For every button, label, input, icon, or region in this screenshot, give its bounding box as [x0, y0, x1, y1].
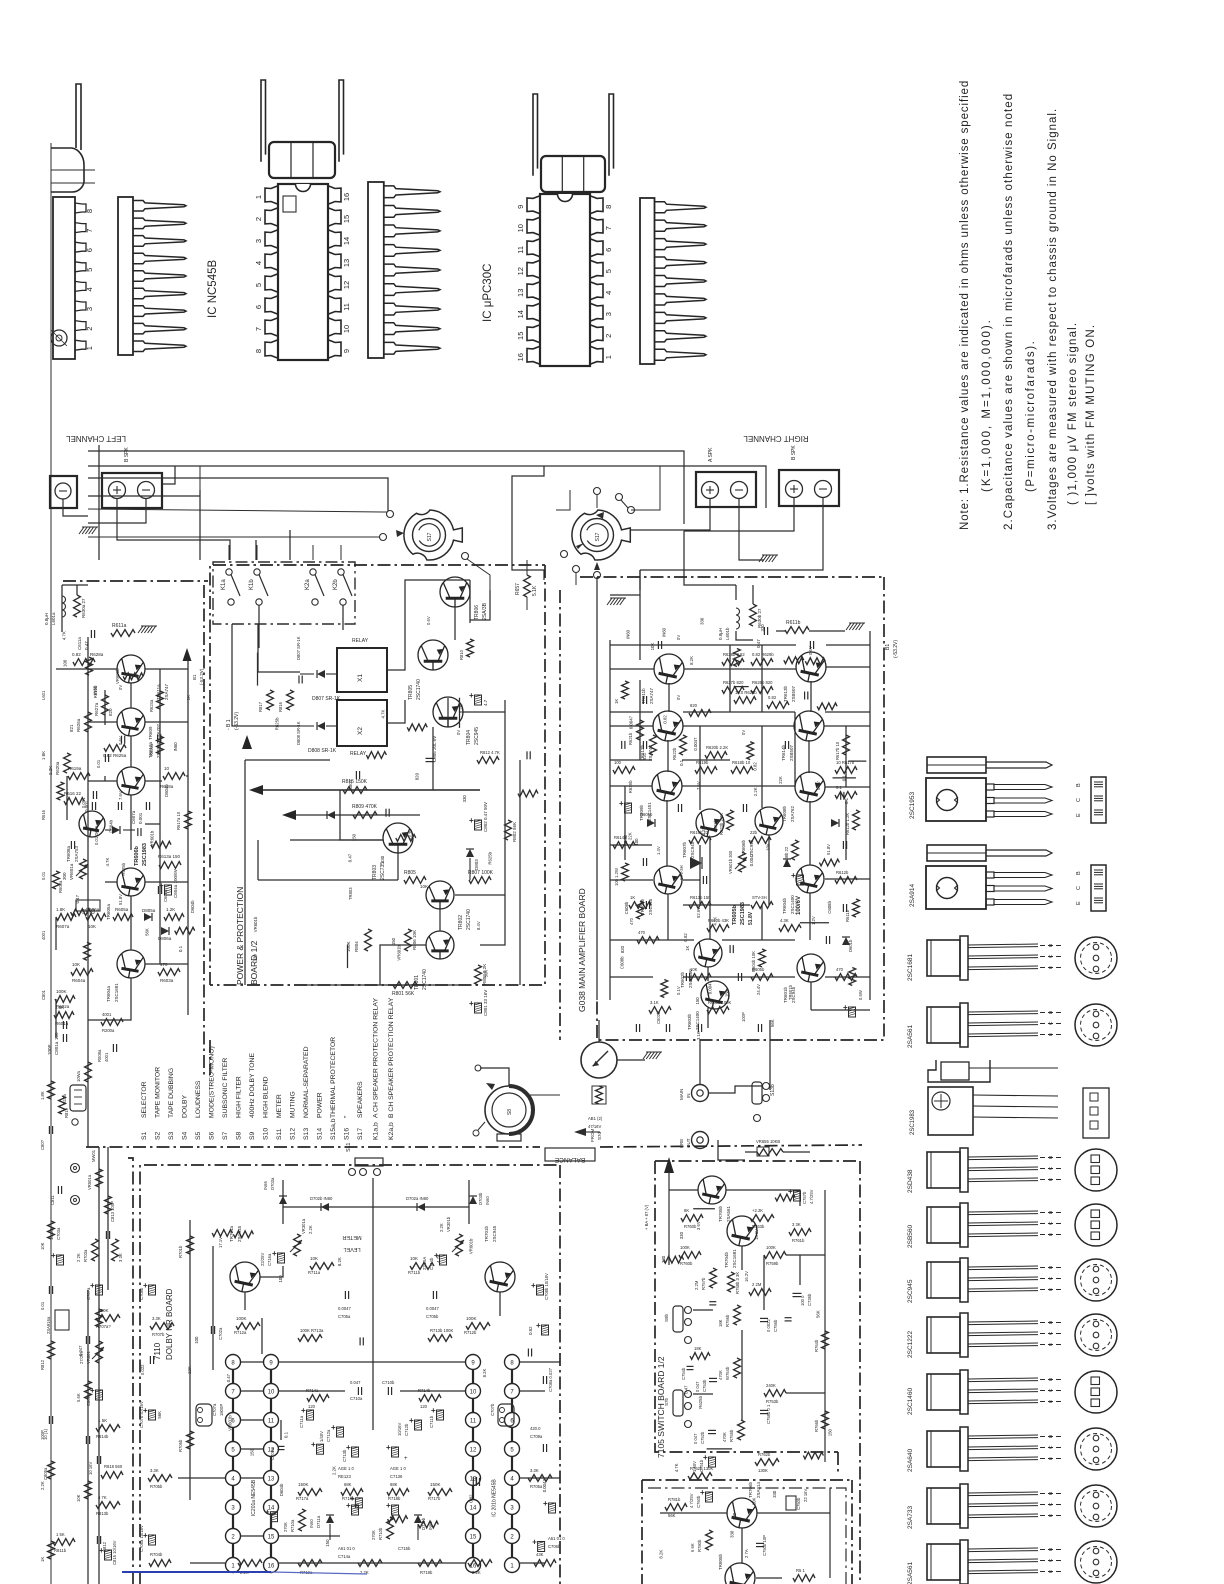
svg-text:C801: C801	[41, 989, 46, 1000]
switch S7b	[664, 1390, 692, 1428]
svg-text:15: 15	[268, 1535, 275, 1541]
svg-text:2 2M: 2 2M	[752, 1282, 762, 1287]
svg-text:100: 100	[634, 838, 639, 846]
label C719 b	[398, 1546, 411, 1551]
svg-text:3.1K: 3.1K	[650, 1000, 659, 1005]
svg-text:+: +	[386, 1501, 391, 1510]
svg-text:2SA733: 2SA733	[907, 1505, 914, 1529]
svg-text:150K: 150K	[430, 1482, 441, 1487]
power board dashed outline	[210, 565, 545, 985]
svg-text:3.Voltages are measured with r: 3.Voltages are measured with respect to …	[1047, 108, 1059, 530]
svg-text:56K: 56K	[770, 1019, 775, 1027]
label BALANCE	[545, 1148, 595, 1163]
svg-text:11: 11	[342, 303, 351, 311]
svg-text:2SA747: 2SA747	[164, 683, 169, 700]
svg-text:56K: 56K	[144, 928, 149, 936]
svg-text:56K: 56K	[484, 970, 489, 978]
resistor R714a 120	[306, 1388, 329, 1409]
svg-text:2SC945: 2SC945	[648, 898, 653, 915]
svg-text:D703b: D703b	[478, 1192, 483, 1205]
svg-text:2SC945: 2SC945	[907, 1279, 914, 1303]
svg-text:51.8V: 51.8V	[748, 911, 754, 925]
svg-text:MODE(STREO-MONO): MODE(STREO-MONO)	[209, 1046, 216, 1118]
svg-text:( )1,000 μV FM stereo signal: ( )1,000 μV FM stereo signal.	[1067, 322, 1079, 505]
svg-text:TR804: TR804	[466, 730, 472, 745]
svg-text:R612b: R612b	[836, 870, 849, 875]
svg-text:1K: 1K	[40, 1557, 45, 1562]
svg-text:C710b: C710b	[382, 1380, 395, 1385]
svg-text:C813 100P: C813 100P	[110, 1201, 115, 1222]
resistor R802 8.2K	[475, 964, 487, 985]
svg-text:2SC1740: 2SC1740	[416, 679, 422, 700]
svg-text:10K: 10K	[76, 1494, 81, 1502]
svg-text:0.82: 0.82	[768, 695, 777, 700]
svg-text:TR601b: TR601b	[788, 984, 793, 1000]
resistor R626a	[69, 712, 91, 732]
dolby right components	[528, 1273, 565, 1566]
svg-text:STV-3H: STV-3H	[679, 865, 684, 880]
svg-text:R719b: R719b	[420, 1570, 433, 1575]
package 2SA561b	[907, 1540, 1117, 1584]
svg-text:0.0047: 0.0047	[338, 1306, 351, 1311]
svg-text:0.6V: 0.6V	[816, 781, 821, 790]
svg-text:15 6V: 15 6V	[754, 1229, 759, 1240]
transistor TR611a 2SA747	[117, 655, 169, 700]
svg-text:IC μPC30C: IC μPC30C	[482, 264, 494, 322]
svg-text:VR655 10KB: VR655 10KB	[756, 1139, 780, 1144]
svg-text:R815 150K: R815 150K	[342, 779, 368, 785]
svg-text:TR805: TR805	[408, 685, 414, 700]
svg-text:0V: 0V	[676, 635, 681, 640]
left amp extra parts	[53, 685, 192, 905]
label 16.2V	[744, 1271, 749, 1282]
svg-text:R625b: R625b	[698, 1395, 703, 1408]
svg-text:22b: 22b	[750, 830, 758, 835]
resistor R763b 2.2K	[750, 1208, 774, 1229]
transistor TR601b 2SC945	[783, 954, 825, 1003]
svg-text:0.82: 0.82	[683, 933, 688, 942]
transistor TR805 2SC1740	[408, 640, 448, 700]
svg-text:D803: D803	[474, 859, 479, 870]
svg-text:R625b: R625b	[275, 717, 280, 730]
wire S17b feeds	[512, 451, 570, 580]
wire right bus to S17b	[631, 466, 660, 510]
switch S9b	[664, 1306, 692, 1344]
svg-text:0.01: 0.01	[40, 1301, 45, 1310]
svg-text:7110: 7110	[153, 1342, 162, 1360]
svg-text:0.0047: 0.0047	[426, 1306, 439, 1311]
svg-text:9: 9	[342, 349, 351, 353]
cap C805 pp	[426, 736, 438, 762]
svg-text:+: +	[51, 1251, 56, 1260]
svg-text:S14: S14	[317, 1128, 324, 1140]
svg-text:470K: 470K	[718, 1370, 723, 1380]
svg-text:POWER: POWER	[317, 1092, 324, 1118]
label LEFT CHANNEL	[66, 434, 126, 443]
svg-text:8.4V: 8.4V	[476, 921, 481, 930]
svg-text:R714b: R714b	[418, 1388, 431, 1393]
svg-text:150: 150	[391, 937, 396, 945]
svg-text:C709a: C709a	[270, 1447, 275, 1460]
svg-text:4.7: 4.7	[483, 699, 488, 706]
svg-text:TR806: TR806	[474, 605, 480, 620]
svg-text:13: 13	[268, 1477, 275, 1483]
svg-text:D808 SR-1K: D808 SR-1K	[308, 748, 337, 754]
IC uPC30C DIP top view	[516, 194, 613, 366]
svg-text:TR604a: TR604a	[106, 985, 111, 1002]
svg-text:(K=1,000, M=1,000,000).: (K=1,000, M=1,000,000).	[981, 318, 993, 492]
cap left bottom	[54, 1021, 67, 1040]
ecap C712b	[397, 1416, 422, 1436]
bl resistor r2	[76, 1062, 91, 1082]
transistor TR701b 2SC945	[484, 1225, 515, 1294]
svg-text:10K: 10K	[310, 1256, 318, 1261]
svg-text:IC201a NE545B: IC201a NE545B	[251, 1479, 257, 1516]
svg-text:100P: 100P	[40, 1430, 45, 1440]
svg-text:2SA561: 2SA561	[726, 1205, 731, 1222]
svg-text:0.001: 0.001	[138, 812, 143, 824]
wire balance area	[745, 1020, 770, 1160]
ecap C802	[469, 802, 488, 832]
ground main amp inner	[607, 598, 626, 605]
svg-text:4.7K: 4.7K	[381, 710, 386, 719]
svg-text:IN60: IN60	[485, 1195, 490, 1205]
main amp extra vertical resistors	[622, 681, 860, 967]
svg-text:K2a: K2a	[305, 579, 311, 590]
svg-text:0.82: 0.82	[528, 1326, 533, 1335]
resistor R756b 18K	[718, 1305, 740, 1327]
svg-text:+: +	[272, 1249, 277, 1258]
svg-text:0.47: 0.47	[347, 853, 352, 862]
label 7105 SWITCH BOARD 1/2	[656, 1356, 666, 1458]
svg-text:16: 16	[516, 353, 525, 361]
svg-text:+: +	[469, 691, 474, 700]
svg-text:4.7K: 4.7K	[61, 631, 66, 640]
bl resistor r5	[96, 1495, 120, 1516]
svg-text:C752b: C752b	[700, 1431, 705, 1444]
svg-text:R802 56K: R802 56K	[512, 822, 517, 842]
arrow B1 rail	[226, 712, 252, 749]
wire bus top 3	[88, 478, 388, 511]
svg-text:IC NC545B: IC NC545B	[207, 260, 219, 318]
svg-text:R711b: R711b	[408, 1270, 421, 1275]
svg-text:R810: R810	[459, 649, 464, 660]
svg-text:RELAY: RELAY	[350, 751, 367, 757]
resistor R601 left	[54, 1005, 74, 1026]
resistor R809 470K	[352, 804, 378, 818]
svg-text:R704b: R704b	[150, 1552, 163, 1557]
main amp wires	[610, 570, 870, 1000]
wire bus top 1	[88, 451, 684, 524]
ground left terminals	[79, 527, 98, 534]
svg-text:D703a: D703a	[270, 1177, 275, 1190]
resistor R758b 3.2K	[728, 1272, 740, 1294]
svg-text:2SC1740: 2SC1740	[466, 909, 472, 930]
bl resistor r6	[53, 1532, 75, 1553]
svg-text:0V: 0V	[676, 695, 681, 700]
svg-text:IC 201b NE545B: IC 201b NE545B	[492, 1479, 498, 1517]
svg-text:R755b: R755b	[729, 1429, 734, 1442]
svg-text:13: 13	[516, 289, 525, 297]
rotary switch S17a	[404, 510, 462, 560]
jack PRE OUT	[679, 1132, 709, 1149]
svg-text:3 3K: 3 3K	[118, 1253, 123, 1262]
svg-text:C: C	[1048, 1331, 1054, 1335]
svg-text:120: 120	[308, 1404, 316, 1409]
dolby mid wires	[155, 1189, 500, 1584]
resistor R712b 100K	[464, 1316, 490, 1335]
svg-text:R818 560: R818 560	[104, 1464, 123, 1469]
svg-text:1.8K: 1.8K	[40, 1091, 45, 1100]
ecap D750b	[782, 1486, 808, 1510]
svg-text:+: +	[386, 1443, 391, 1452]
svg-text:TR604b: TR604b	[782, 897, 787, 914]
svg-text:R804: R804	[354, 941, 359, 952]
wire S17a feed	[199, 466, 201, 490]
IC1 DIP side view	[118, 197, 186, 355]
resistor R815 150K	[342, 779, 368, 793]
svg-text:7: 7	[254, 327, 263, 331]
svg-text:E: E	[1048, 1400, 1054, 1403]
switch board extra wires	[669, 1255, 825, 1476]
svg-text:330: 330	[380, 855, 385, 863]
svg-text:52.6V: 52.6V	[696, 907, 701, 918]
svg-text:B: B	[1076, 783, 1082, 787]
left amp label texture	[61, 631, 195, 952]
ecap C807	[469, 691, 488, 706]
svg-text:C7136: C7136	[390, 1474, 403, 1479]
svg-text:8: 8	[254, 349, 263, 353]
svg-text:C757b: C757b	[802, 1191, 807, 1204]
svg-text:VR501a: VR501a	[87, 1174, 92, 1190]
svg-text:[ ]volts with FM MUTING ON.: [ ]volts with FM MUTING ON.	[1085, 324, 1097, 505]
svg-text:3: 3	[254, 239, 263, 243]
resistor R713b 100K top	[428, 1328, 453, 1341]
resistor R616 22	[64, 791, 84, 804]
IC201a NE545B pins	[226, 1354, 279, 1573]
pot VR601a 300	[62, 859, 88, 880]
svg-text:C: C	[1048, 1445, 1054, 1449]
svg-text:100/6V: 100/6V	[796, 896, 802, 915]
svg-text:10K: 10K	[40, 1242, 45, 1250]
svg-text:4 7K: 4 7K	[98, 1495, 107, 1500]
resistor R604a 10K	[71, 962, 93, 983]
svg-text:BOARD 1/2: BOARD 1/2	[249, 940, 259, 985]
svg-text:S1: S1	[141, 1131, 148, 1140]
resistor R618 10	[160, 766, 185, 789]
svg-text:17.1V: 17.1V	[218, 1237, 223, 1248]
wire relay right	[387, 620, 405, 723]
svg-text:6: 6	[85, 248, 94, 252]
switch board dashed outline	[655, 1161, 860, 1584]
svg-text:R707b: R707b	[152, 1332, 165, 1337]
svg-text:0.82 R625a: 0.82 R625a	[103, 753, 127, 758]
S17a terminal 1	[88, 509, 394, 518]
svg-text:0.0047: 0.0047	[749, 852, 754, 866]
svg-text:D601b: D601b	[848, 939, 853, 952]
wire pp right bus	[519, 760, 521, 985]
switch board wires	[669, 1190, 825, 1462]
svg-text:R613a 150: R613a 150	[158, 854, 181, 859]
svg-text:B: B	[1048, 1378, 1054, 1381]
transistor TR612a 2SB507	[117, 708, 161, 758]
ground meter	[643, 1052, 662, 1059]
svg-text:+: +	[331, 1423, 336, 1432]
svg-text:+: +	[301, 1406, 306, 1415]
svg-text:R712a: R712a	[234, 1330, 247, 1335]
main amp jumper bus	[596, 577, 598, 1000]
svg-text:14: 14	[516, 310, 525, 318]
svg-text:R620b 2.2K: R620b 2.2K	[706, 745, 728, 750]
svg-text:R814b: R814b	[96, 1434, 109, 1439]
dolby part texture	[212, 1230, 544, 1552]
svg-text:24.4V: 24.4V	[756, 984, 761, 995]
arrow left feed2	[282, 810, 296, 820]
resistor R711b 10K	[408, 1256, 434, 1275]
svg-text:D808 SR-1K: D808 SR-1K	[296, 721, 301, 745]
svg-text:R806 10K: R806 10K	[412, 930, 417, 950]
cap C753b 0.047	[695, 1378, 717, 1392]
pot VR301a 2.2K	[290, 1218, 313, 1256]
svg-text:270K: 270K	[283, 1522, 288, 1532]
svg-text:TR805b: TR805b	[718, 1553, 723, 1570]
ecap C716a 22/25V	[260, 1249, 285, 1266]
svg-text:R701b: R701b	[178, 1245, 183, 1258]
svg-text:L601b: L601b	[725, 627, 730, 640]
ecap C714b2	[386, 1501, 399, 1515]
svg-text:56K: 56K	[157, 1411, 162, 1419]
svg-text:C708b 10/18V: C708b 10/18V	[544, 1273, 549, 1300]
resistor R630b 27	[750, 604, 762, 628]
svg-text:8.2K: 8.2K	[337, 1257, 342, 1266]
svg-text:R603a: R603a	[160, 978, 174, 983]
bl resistor 1.5K	[96, 1418, 120, 1439]
svg-text:S11: S11	[346, 1143, 352, 1152]
svg-text:(-53.2V): (-53.2V)	[234, 712, 240, 730]
transistor TR606b 2SC945	[741, 807, 783, 856]
resistor R625a 0.82	[103, 745, 127, 758]
svg-text:2 7A: 2 7A	[744, 1549, 749, 1558]
svg-text:10K: 10K	[88, 924, 96, 929]
arrow up switch board	[644, 1157, 674, 1265]
svg-text:10: 10	[342, 325, 351, 333]
label POWER & PROTECTION BOARD 1/2	[235, 887, 259, 985]
svg-text:R759b: R759b	[766, 1261, 779, 1266]
svg-text:E: E	[1048, 1233, 1054, 1236]
bl resistor r3	[76, 1239, 98, 1262]
svg-text:+: +	[409, 1416, 414, 1425]
svg-text:TR701a: TR701a	[229, 1225, 234, 1242]
svg-text:L601a: L601a	[51, 612, 56, 625]
svg-text:VR601b: VR601b	[469, 1238, 474, 1254]
svg-text:0.6V: 0.6V	[118, 736, 123, 745]
svg-text:+: +	[543, 1499, 548, 1508]
switch board 2 dashed outline	[642, 1480, 852, 1584]
svg-text:R619b: R619b	[93, 685, 98, 698]
wire bus top 5	[162, 466, 175, 484]
IC NC545B DIP side view	[368, 182, 440, 358]
svg-text:C801a: C801a	[54, 1041, 59, 1055]
svg-text:10K: 10K	[420, 884, 428, 889]
svg-text:C707b 47/16V: C707b 47/16V	[139, 1401, 144, 1428]
svg-text:8.2K: 8.2K	[659, 1550, 664, 1559]
pot VR655 balance	[745, 1139, 810, 1156]
main amp part texture	[622, 649, 867, 998]
svg-text:330: 330	[679, 1231, 684, 1239]
transistor TR609 2SA702	[117, 723, 161, 796]
power board label texture	[253, 704, 493, 977]
svg-text:C803: C803	[348, 779, 353, 790]
svg-text:MUTING: MUTING	[290, 1091, 297, 1118]
svg-text:11: 11	[470, 1419, 477, 1425]
svg-text:METER: METER	[276, 1094, 283, 1118]
rotary switch S17b	[572, 510, 630, 560]
package 2SC1953	[909, 757, 1106, 823]
svg-text:C712a: C712a	[326, 1429, 331, 1442]
svg-text:TR802: TR802	[458, 915, 464, 930]
svg-text:2SC1222: 2SC1222	[907, 1331, 914, 1358]
svg-text:68K: 68K	[344, 1482, 352, 1487]
svg-text:R705b: R705b	[150, 1484, 163, 1489]
transistor TR604b 2SC1400	[782, 865, 824, 914]
resistor R714b 120	[418, 1388, 441, 1409]
svg-text:C735b: C735b	[807, 1293, 812, 1306]
notes text block	[959, 80, 1097, 530]
svg-text:R610b 43K: R610b 43K	[708, 918, 729, 923]
svg-text:4.7K: 4.7K	[105, 858, 110, 867]
svg-text:R801 56K: R801 56K	[392, 991, 415, 997]
contact K1a	[221, 569, 240, 605]
svg-text:RE123: RE123	[338, 1474, 351, 1479]
svg-text:S13b: S13b	[770, 1084, 776, 1096]
svg-text:+: +	[404, 1456, 408, 1462]
svg-text:R813b: R813b	[96, 1511, 109, 1516]
transistor TR613b 2SB507	[783, 652, 826, 702]
svg-text:C711b: C711b	[429, 1415, 434, 1428]
power board part texture	[258, 653, 539, 969]
svg-text:R608a: R608a	[58, 880, 63, 893]
svg-text:R703a: R703a	[83, 1249, 88, 1262]
svg-text:C602b: C602b	[656, 1011, 661, 1024]
svg-text:10K: 10K	[650, 643, 655, 651]
svg-text:(P=micro-microfarads).: (P=micro-microfarads).	[1025, 340, 1037, 492]
ecap C801 pp	[469, 990, 488, 1016]
svg-text:C811: C811	[50, 1195, 55, 1205]
svg-text:B SPK: B SPK	[791, 445, 797, 460]
svg-text:300: 300	[62, 872, 67, 880]
svg-text:VR601b: VR601b	[149, 830, 154, 846]
resistor R807 100K	[468, 870, 494, 883]
resistor R765 1.5K	[793, 1568, 815, 1584]
transistor TR608b 2SA762	[782, 772, 825, 822]
S17b terminal tr	[616, 494, 629, 509]
transistor TR804 2SC945	[433, 697, 480, 745]
ecap C711a plus	[342, 1443, 359, 1462]
svg-text:C: C	[1048, 1221, 1054, 1225]
svg-text:150: 150	[724, 989, 729, 997]
svg-text:TR608a: TR608a	[66, 845, 71, 862]
svg-text:C: C	[1048, 1021, 1054, 1025]
svg-text:2SA914: 2SA914	[909, 883, 916, 907]
svg-text:18.0 R625b: 18.0 R625b	[735, 690, 757, 695]
cap C761b 10P	[756, 1535, 767, 1556]
svg-text:2: 2	[604, 334, 613, 338]
svg-text:RIGHT CHANNEL: RIGHT CHANNEL	[743, 434, 809, 443]
svg-text:820: 820	[620, 945, 625, 953]
transistor TR706b 2SA914	[727, 1481, 761, 1530]
svg-text:2SC945: 2SC945	[474, 727, 480, 745]
svg-text:+: +	[843, 1003, 848, 1012]
